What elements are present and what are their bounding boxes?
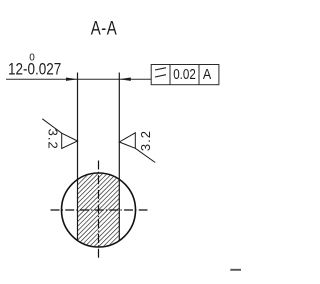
svg-text:3.2: 3.2	[45, 129, 60, 150]
tolerance value 0.02	[173, 66, 196, 83]
roughness symbol right	[119, 133, 155, 163]
vertical centerline	[98, 161, 100, 259]
datum letter A	[203, 66, 211, 82]
horizontal centerline	[51, 209, 148, 211]
svg-text:A: A	[203, 66, 211, 82]
dimension text 12-0.027	[8, 60, 61, 79]
dimension arrow left	[66, 78, 78, 81]
section title A-A	[91, 17, 118, 39]
roughness value left 3.2	[45, 129, 60, 150]
dimension line	[6, 78, 151, 80]
roughness value right 3.2	[138, 130, 153, 151]
circle outline	[62, 173, 136, 247]
dimension arrow right (leader arrow)	[119, 78, 131, 81]
svg-text:0.02: 0.02	[173, 66, 196, 83]
svg-text:3.2: 3.2	[138, 130, 153, 151]
svg-text:12-0.027: 12-0.027	[8, 60, 61, 79]
hatched section area	[78, 170, 120, 251]
extension line left (flat edge)	[77, 73, 79, 241]
roughness symbol left	[42, 119, 77, 149]
parallelism symbol	[155, 68, 166, 77]
svg-text:A-A: A-A	[91, 17, 118, 39]
extension line right (flat edge)	[118, 73, 120, 241]
cut-off line bottom right	[230, 269, 241, 271]
feature control frame	[151, 65, 219, 85]
